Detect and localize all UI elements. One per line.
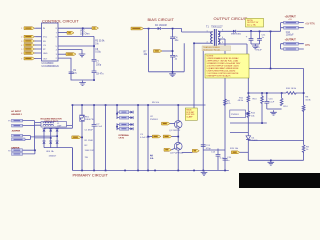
port VCC2 bbox=[67, 31, 74, 34]
wire bridge bottom bus bbox=[44, 148, 72, 171]
connector pin internal 4 bbox=[119, 127, 128, 130]
port Q2 gate bbox=[164, 148, 175, 151]
svg-text:100 Ohm: 100 Ohm bbox=[80, 33, 90, 35]
svg-text:VCC: VCC bbox=[80, 31, 85, 33]
junction bottom rail x94 bbox=[93, 170, 95, 172]
wire col x147.5 bbox=[147, 105, 149, 170]
text primary col x82 bbox=[85, 130, 95, 159]
wire x281.6 drop bbox=[281, 93, 283, 98]
junction bottom rail x194 bbox=[193, 170, 195, 172]
wire cap drop x259.5 bbox=[259, 31, 261, 38]
port DRV (pin8 net) bbox=[92, 27, 99, 30]
optocoupler U3 box bbox=[230, 110, 246, 118]
text AC input title bbox=[11, 110, 22, 116]
diode internal 4 bbox=[129, 127, 133, 130]
wire tl431 loop bbox=[248, 140, 303, 161]
capacitor C11 output bbox=[257, 35, 266, 44]
junction out x270.5 bbox=[270, 31, 272, 33]
ground fb mid bbox=[270, 110, 277, 115]
wire J5 joins bbox=[23, 150, 35, 154]
svg-text:Q2 FQP8N60: Q2 FQP8N60 bbox=[170, 152, 184, 154]
svg-text:C12: C12 bbox=[286, 32, 291, 34]
text P2 ref bbox=[8, 150, 10, 152]
text OUT RTN note bbox=[305, 45, 310, 47]
wire sec pin5 net bbox=[222, 44, 248, 69]
junction bias mid bbox=[172, 50, 174, 52]
wire bus to choke bbox=[35, 123, 41, 126]
junction top rail x178.2 bbox=[177, 104, 179, 106]
wire fb right vert x303.6 bbox=[303, 69, 305, 161]
wire cap bus to gnd bbox=[267, 108, 282, 110]
resistor R14 bbox=[280, 98, 288, 108]
connector pin J3-2 bbox=[284, 48, 299, 51]
capacitor C15 sec bbox=[223, 157, 232, 162]
port VCC (U1 left pin 2) bbox=[21, 35, 36, 38]
junction top rail x117 bbox=[116, 104, 118, 106]
junction bottom rail x125 bbox=[124, 170, 126, 172]
junction out x259.5 bbox=[259, 31, 261, 33]
svg-text:P2: P2 bbox=[8, 150, 10, 152]
wire x262 to rail y123 bbox=[230, 103, 267, 133]
wire U1 pin7 bbox=[58, 32, 67, 34]
junction bias x172.5 bbox=[172, 28, 174, 30]
capacitor C7 bbox=[92, 71, 105, 80]
wire primary top rail bbox=[72, 104, 205, 106]
svg-text:NOTE:: NOTE: bbox=[247, 20, 254, 22]
resistor R11 bbox=[238, 96, 250, 103]
junction top rail x148 bbox=[147, 104, 149, 106]
ground fb bottom bbox=[268, 160, 275, 165]
svg-text:RCD NET: RCD NET bbox=[186, 112, 195, 114]
svg-text:VCC: VCC bbox=[43, 37, 48, 39]
svg-text:16.9k: 16.9k bbox=[305, 99, 311, 101]
svg-text:6.SWITCHING FREQ 40k-130kHz: 6.SWITCHING FREQ 40k-130kHz bbox=[207, 70, 236, 72]
wire x248.3 upper bbox=[247, 69, 249, 96]
capacitor C10 output bbox=[246, 35, 254, 44]
svg-text:49.9k: 49.9k bbox=[238, 100, 244, 102]
port VCC bias bbox=[131, 27, 144, 30]
wire bridge plus vertical bbox=[71, 126, 73, 171]
diode D15 bridge bbox=[49, 138, 52, 148]
text bridge title bbox=[41, 117, 63, 123]
svg-text:R3 30.9k: R3 30.9k bbox=[95, 41, 105, 43]
junction top rail x94 bbox=[93, 104, 95, 106]
wire drain from T1 pin4 bbox=[184, 43, 209, 110]
ground U1 pin4 bbox=[79, 52, 86, 57]
capacitor C16 fb bbox=[264, 99, 274, 109]
svg-text:RTN: RTN bbox=[305, 45, 310, 47]
wire secondary top rail bbox=[222, 30, 281, 32]
wire bias rail bbox=[144, 29, 210, 33]
resistor R5 on x225 bbox=[224, 99, 232, 106]
svg-text:R5 10k: R5 10k bbox=[152, 102, 160, 104]
wire col x82 bbox=[81, 105, 83, 170]
svg-text:0.1uF 1kV: 0.1uF 1kV bbox=[140, 137, 151, 139]
svg-text:150K 1W: 150K 1W bbox=[85, 150, 95, 152]
transistor Q2 MOSFET bbox=[170, 142, 184, 154]
capacitor C5 bias bbox=[170, 55, 178, 60]
ground primary bottom bbox=[201, 170, 208, 175]
capacitor C6 bbox=[92, 59, 102, 71]
wire bridge top bus bbox=[44, 127, 72, 129]
wire U3 right stub bbox=[246, 113, 249, 115]
resistor R9 x303.6 bbox=[302, 145, 309, 153]
text C10 value bbox=[256, 47, 263, 52]
junction drain bbox=[193, 42, 195, 44]
wire bias bottom rail bbox=[149, 71, 185, 73]
svg-text:OUTPUT 5V: OUTPUT 5V bbox=[247, 22, 259, 24]
wire rail x94 bbox=[93, 36, 95, 59]
connector pin J2-1 bbox=[284, 21, 299, 24]
svg-text:+OUTPUT: +OUTPUT bbox=[285, 16, 297, 19]
wire fb drop x270.5 bbox=[270, 31, 272, 68]
connector pin J5-1 bbox=[12, 149, 23, 152]
ground output caps bbox=[252, 44, 259, 49]
resistor R10 inline bbox=[286, 88, 297, 94]
junction fb y93 x303.6 bbox=[303, 92, 305, 94]
transformer part label bbox=[202, 46, 231, 52]
junction fb y93 x281.6 bbox=[281, 92, 283, 94]
wire col x105 bbox=[105, 105, 107, 170]
svg-text:1: 1 bbox=[207, 31, 208, 33]
connector pin internal 3 bbox=[119, 123, 128, 126]
junction bottom rail x105.5 bbox=[105, 170, 107, 172]
connector pin J4-2 bbox=[12, 138, 26, 141]
svg-text:+5V RTN: +5V RTN bbox=[305, 24, 315, 26]
wire J4 to bus bbox=[23, 136, 35, 140]
junction bias x148.5 bbox=[148, 28, 150, 30]
svg-text:5: 5 bbox=[21, 49, 22, 51]
junction choke out bbox=[72, 104, 74, 106]
wire cap x266.8 drop bbox=[266, 93, 268, 102]
capacitor C4 bias bbox=[170, 37, 179, 42]
svg-text:NOTES:: NOTES: bbox=[207, 56, 215, 58]
svg-text:PS2801: PS2801 bbox=[150, 119, 159, 121]
wire col x94 bbox=[93, 105, 95, 170]
diode D5 output rectifier bbox=[231, 30, 242, 36]
junction fb bottom gnd bbox=[270, 160, 272, 162]
svg-text:1%: 1% bbox=[95, 43, 98, 45]
svg-text:6: 6 bbox=[21, 53, 22, 55]
svg-text:+OUTPUT: +OUTPUT bbox=[285, 38, 297, 41]
diode D11 bridge bbox=[43, 128, 46, 136]
connector pin internal 2 bbox=[119, 116, 128, 119]
svg-text:1N4007: 1N4007 bbox=[49, 156, 57, 158]
text J4 title bbox=[12, 131, 21, 133]
port fb ref label bbox=[230, 148, 248, 154]
wire U1 pin5 net bbox=[58, 45, 94, 47]
junction internal a bbox=[116, 113, 118, 115]
capacitor C14 sec bbox=[211, 149, 225, 171]
junction fb x270.5 y68.5 bbox=[270, 68, 272, 70]
svg-text:750811127: 750811127 bbox=[211, 25, 223, 28]
svg-text:10D471K: 10D471K bbox=[85, 119, 95, 121]
wire col x117 bbox=[116, 105, 118, 130]
connector pin P1-2 bbox=[12, 124, 23, 127]
resistor R12 bbox=[247, 111, 256, 118]
connector pin P1-1 bbox=[12, 119, 23, 122]
note box top-right bbox=[246, 18, 264, 27]
svg-text:7: 7 bbox=[21, 58, 22, 60]
title OUTPUT CIRCUIT bbox=[214, 16, 248, 21]
junction bottom rail x155 bbox=[154, 170, 156, 172]
svg-text:2: 2 bbox=[21, 37, 22, 39]
wire bus to bridge mid bbox=[35, 136, 58, 138]
wire U1 pin6 net bbox=[58, 35, 94, 37]
wire J3 right stubs bbox=[298, 44, 303, 49]
text +OUT arrow note bbox=[305, 24, 315, 26]
port bias mid bbox=[154, 50, 173, 53]
port sense right bbox=[182, 149, 199, 152]
svg-text:Q1 2N2222: Q1 2N2222 bbox=[169, 130, 181, 132]
wire col x138 bbox=[137, 105, 139, 170]
title BIAS CIRCUIT bbox=[148, 17, 175, 22]
wire x248.3 low bbox=[247, 117, 249, 136]
junction top rail x82 bbox=[81, 104, 83, 106]
junction top rail x138 bbox=[137, 104, 139, 106]
svg-text:GND: GND bbox=[43, 53, 48, 55]
controller IC U1 bbox=[42, 23, 59, 61]
ground bottom control bbox=[79, 81, 86, 86]
svg-text:0.1uF: 0.1uF bbox=[97, 126, 103, 128]
svg-text:BIAS CIRCUIT: BIAS CIRCUIT bbox=[148, 17, 175, 22]
junction rail y123 x262 bbox=[261, 122, 263, 124]
connector pin J3-1 bbox=[284, 42, 299, 45]
connector pin J2-2 bbox=[284, 26, 299, 29]
capacitor C13 470p bbox=[201, 145, 212, 150]
junction bottom rail x178.2 bbox=[177, 170, 179, 172]
svg-text:0.1uF: 0.1uF bbox=[269, 101, 275, 103]
wire bias left drop x148.5 bbox=[148, 29, 150, 72]
svg-text:CKT5: CKT5 bbox=[119, 138, 125, 140]
node rail x94 labels bbox=[80, 31, 105, 54]
resistor R8 x303.6 bbox=[302, 97, 311, 112]
regulator U4 TL431 bbox=[246, 136, 258, 142]
capacitor C2 primary bbox=[92, 123, 103, 128]
svg-text:7.UCC28600 CONTROLLER DEVICE: 7.UCC28600 CONTROLLER DEVICE bbox=[207, 73, 240, 75]
junction bottom rail x138 bbox=[137, 170, 139, 172]
svg-text:FOR VDS: FOR VDS bbox=[186, 114, 195, 116]
svg-text:R1 150K: R1 150K bbox=[85, 140, 94, 142]
text internal ckt title bbox=[119, 134, 130, 140]
svg-text:P1: P1 bbox=[8, 121, 10, 123]
diode internal 1 bbox=[129, 111, 133, 114]
port FB (U1 left pin 3) bbox=[21, 40, 36, 43]
wire col x203 bbox=[202, 48, 204, 171]
wire U1 pin3 bbox=[58, 53, 66, 55]
connector pin internal 1 bbox=[119, 111, 128, 114]
wire J2 right stubs bbox=[298, 23, 303, 28]
svg-text:MBRS360: MBRS360 bbox=[231, 34, 242, 36]
svg-text:OUTPUT CIRCUIT: OUTPUT CIRCUIT bbox=[214, 16, 248, 21]
svg-text:PS2801: PS2801 bbox=[231, 114, 240, 116]
wire cap drop x251 bbox=[250, 31, 252, 38]
junction out x251 bbox=[250, 30, 252, 32]
port OUT (U1 left pin 7) bbox=[21, 57, 36, 60]
svg-text:470uF: 470uF bbox=[256, 49, 263, 51]
text P1 ref bbox=[8, 121, 10, 123]
wire vert 82.7 bbox=[82, 28, 84, 36]
junction fb y93 x248.3 bbox=[248, 92, 250, 94]
junction fb y93 x262 bbox=[261, 92, 263, 94]
diode D13 bridge bbox=[56, 128, 59, 136]
junction J5 bbox=[34, 149, 36, 151]
junction mid A bbox=[147, 136, 149, 138]
junction bottom rail x203.2 bbox=[202, 170, 204, 172]
port Q1 base bbox=[162, 122, 175, 125]
diode D2 bias bbox=[155, 25, 167, 30]
port RT net bbox=[66, 53, 76, 56]
transformer T1 bbox=[206, 25, 223, 47]
junction pin8/R vertical bbox=[82, 27, 84, 29]
junction U3 stub bbox=[248, 113, 250, 115]
wire U1 pin4 gnd bbox=[58, 50, 82, 52]
note box output (big) bbox=[205, 54, 249, 78]
junction bias gnd bbox=[172, 71, 174, 73]
junction x94 y46 bbox=[93, 45, 95, 47]
svg-text:1000uF: 1000uF bbox=[286, 35, 294, 37]
text col x138 bbox=[140, 134, 151, 139]
port VBULK (U1 left pin 1) bbox=[21, 27, 36, 30]
U1 part number text bbox=[42, 62, 59, 68]
junction port aux bbox=[81, 137, 83, 139]
svg-text:+5V: +5V bbox=[288, 19, 292, 21]
svg-text:3: 3 bbox=[21, 41, 22, 43]
text C12 1000uF bbox=[286, 32, 294, 37]
note box primary snubber bbox=[185, 108, 197, 120]
wire AC bus vertical bbox=[34, 121, 36, 151]
title PRIMARY CIRCUIT bbox=[73, 173, 109, 178]
svg-text:750811127 Rev01: 750811127 Rev01 bbox=[203, 49, 221, 51]
wire bias cap rail x172.5 bbox=[172, 29, 174, 72]
wire primary bottom rail bbox=[72, 169, 228, 171]
wire x248.3 mid bbox=[247, 102, 249, 112]
title CONTROL CIRCUIT bbox=[42, 19, 79, 24]
wire sec caps rail bbox=[203, 149, 225, 151]
wire Q1-Q2 bbox=[177, 128, 179, 143]
svg-text:R15 10k: R15 10k bbox=[230, 148, 239, 150]
junction bottom rail x148 bbox=[147, 170, 149, 172]
diode internal 3 bbox=[129, 123, 133, 126]
junction bottom rail x82 bbox=[81, 170, 83, 172]
wire Q2 source bbox=[177, 150, 179, 170]
connector pin J4-1 bbox=[12, 134, 23, 137]
port mid label B bbox=[163, 135, 178, 138]
diode internal 2 bbox=[129, 116, 133, 119]
svg-text:C8 47n: C8 47n bbox=[96, 73, 104, 75]
black redaction rectangle bbox=[239, 173, 320, 188]
wire J3 bracket bbox=[281, 44, 284, 49]
junction x94 y80 bbox=[93, 79, 95, 81]
wire U1 pin8 net bbox=[58, 27, 92, 29]
svg-text:UCC28600DGN: UCC28600DGN bbox=[42, 65, 59, 68]
wire fb rail y93 bbox=[248, 92, 303, 94]
wire J2 bracket bbox=[281, 23, 284, 32]
text bridge part bbox=[46, 150, 57, 158]
junction bridge mid2 bbox=[50, 137, 52, 139]
connector pin J5-2 bbox=[12, 153, 23, 156]
transistor Q1 bbox=[169, 121, 182, 132]
svg-text:SNUB:: SNUB: bbox=[186, 109, 192, 111]
wire choke out bbox=[67, 105, 73, 126]
text left edge R6 bbox=[150, 155, 154, 160]
U1 left pin stubs bbox=[36, 28, 42, 58]
port CS (U1 left pin 4) bbox=[21, 44, 36, 47]
wire P1 to bus bbox=[23, 121, 35, 126]
wire fb horiz y68.5 bbox=[247, 68, 304, 70]
svg-text:D2 1N4148: D2 1N4148 bbox=[155, 25, 167, 27]
resistor R13 bbox=[252, 96, 263, 104]
wire internal stubs bbox=[117, 112, 119, 129]
junction internal b bbox=[116, 126, 118, 128]
port RT (U1 left pin 5) bbox=[21, 48, 36, 51]
port GND (U1 left pin 6) bbox=[21, 52, 36, 55]
wire output cap bus bbox=[251, 43, 260, 45]
text J5 title bbox=[11, 147, 20, 149]
diode D14 bridge bbox=[43, 136, 46, 148]
svg-text:PRIMARY CIRCUIT: PRIMARY CIRCUIT bbox=[73, 173, 109, 178]
capacitor C9 on x71 bbox=[69, 70, 78, 75]
svg-text:470p: 470p bbox=[206, 148, 212, 150]
junction fb x248.3 y68.5 bbox=[248, 68, 250, 70]
port primary aux bbox=[72, 136, 82, 139]
text +OUTPUT1 title bbox=[285, 16, 297, 22]
junction top rail x105.5 bbox=[105, 104, 107, 106]
text left edge U2 bbox=[150, 116, 159, 121]
junction bridge mid1 bbox=[56, 135, 58, 137]
svg-text:C1 68uF: C1 68uF bbox=[85, 130, 94, 132]
svg-text:100p: 100p bbox=[96, 64, 102, 66]
wire U1 pin2 net bbox=[58, 58, 94, 80]
svg-text:4: 4 bbox=[21, 45, 22, 47]
junction bottom rail x225 bbox=[224, 170, 226, 172]
diode D16 bridge bbox=[56, 136, 59, 148]
port mid label A bbox=[148, 135, 161, 138]
wire col x178 upper bbox=[177, 105, 179, 121]
varistor RV1 bbox=[80, 115, 95, 121]
ground bias bbox=[169, 72, 176, 77]
svg-text:R10 16.9k: R10 16.9k bbox=[286, 88, 297, 90]
junction cap x266.8 bbox=[266, 92, 268, 94]
svg-text:JUMPER: JUMPER bbox=[12, 131, 21, 133]
junction mid label bbox=[177, 136, 179, 138]
wire col x225 secondary bbox=[222, 39, 226, 170]
text +OUTPUT2 title bbox=[285, 38, 297, 41]
text col x147.5 bbox=[150, 102, 160, 160]
text R bias bbox=[144, 51, 149, 56]
diode D12 bridge bbox=[49, 128, 52, 138]
inductor L1 common-mode choke bbox=[41, 122, 67, 128]
svg-text:1: 1 bbox=[21, 28, 22, 30]
wire x262 resistor drop bbox=[261, 93, 263, 96]
svg-text:0.01u: 0.01u bbox=[95, 51, 101, 53]
